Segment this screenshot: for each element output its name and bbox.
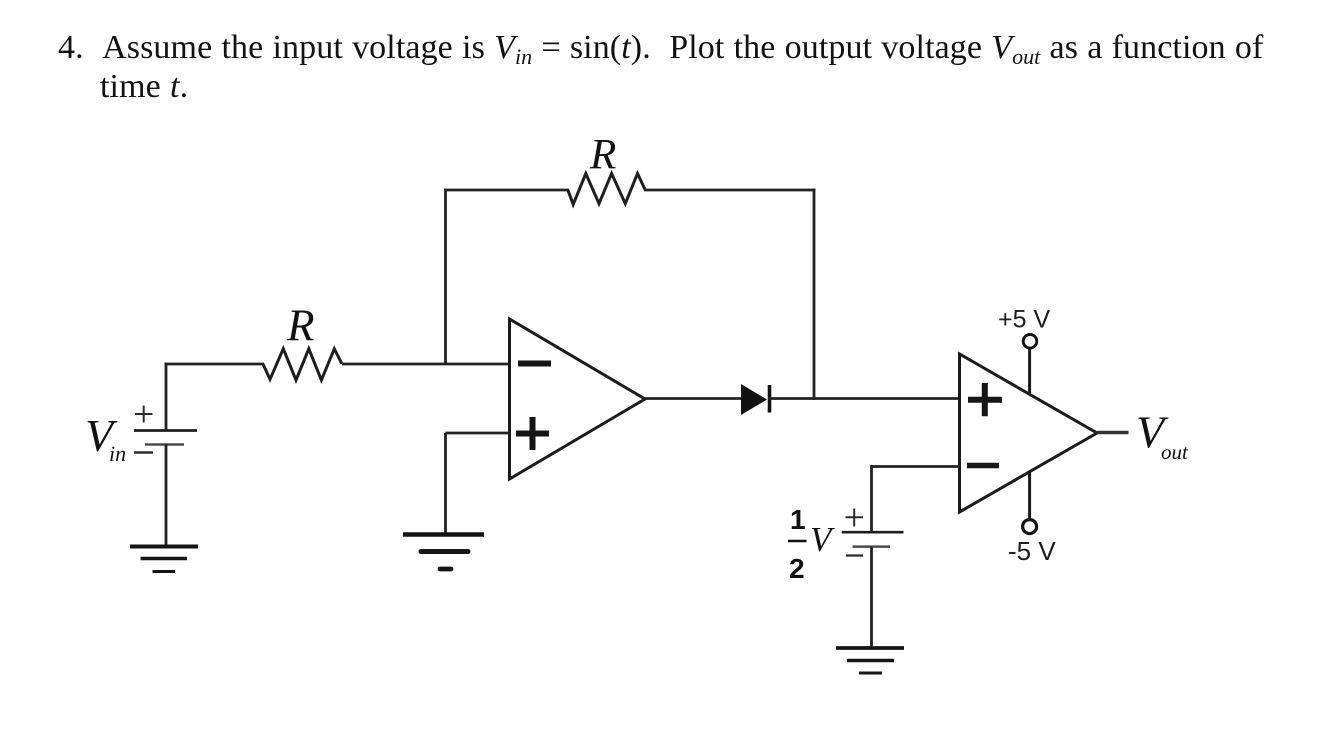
wire: U2 inverting input vertical down to battery — [870, 465, 873, 532]
ground G3 (below 1/2 V battery) — [836, 648, 904, 673]
-5 V supply terminal circle — [1023, 520, 1037, 534]
ground G2 (op-amp U1 non-inverting) — [403, 535, 484, 570]
svg-text:in: in — [109, 441, 126, 466]
label +5 V — [998, 306, 1050, 334]
op-amp U1 triangle — [510, 319, 646, 479]
wire: feedback top horizontal left of R2 — [444, 189, 569, 192]
wire: Vin battery positive terminal vertical — [165, 363, 168, 431]
+5 V supply terminal circle — [1023, 335, 1037, 349]
battery B1 bottom plate — [145, 443, 184, 445]
label B2 value 1/2 V — [788, 504, 835, 584]
wire: battery B1 to ground — [165, 445, 168, 549]
label -5 V — [1008, 536, 1056, 566]
wire: feedback right vertical down to output node — [813, 189, 816, 400]
op-amp U1 non-inverting input plus sign — [516, 417, 549, 450]
svg-text:1: 1 — [790, 504, 806, 535]
label R1 value R — [286, 301, 315, 351]
battery B2 (1/2 V) top plate — [842, 531, 904, 534]
op-amp U2 inverting input minus sign — [967, 463, 999, 469]
wire: U1 output to diode — [644, 397, 742, 400]
wire: diode to op-amp U2 non-inverting input (junction with feedback) — [768, 397, 960, 400]
svg-text:R: R — [589, 132, 616, 179]
wire: battery B2 to ground — [870, 547, 873, 649]
wire: U1 non-inverting input vertical to ground — [444, 433, 447, 535]
diode D1 cathode bar — [768, 385, 772, 413]
resistor R2 zigzag — [568, 174, 645, 205]
wire: input node horizontal to R1 — [165, 363, 264, 366]
battery B1 (Vin) top plate — [134, 429, 197, 432]
problem statement line 1 — [58, 28, 1263, 77]
op-amp U2 non-inverting input plus sign — [968, 383, 1002, 416]
svg-text:2: 2 — [789, 553, 805, 584]
svg-text:+5 V: +5 V — [998, 306, 1050, 334]
label Vin — [85, 410, 126, 466]
svg-text:out: out — [1161, 440, 1189, 464]
svg-text:R: R — [286, 301, 315, 351]
problem statement line 2 — [100, 67, 188, 107]
-5 V supply line — [1028, 473, 1031, 520]
resistor R1 zigzag — [263, 349, 342, 380]
wire: R1 to op-amp U1 inverting input — [342, 363, 510, 366]
label Vout — [1136, 407, 1189, 465]
ground G1 (below Vin battery) — [130, 547, 198, 572]
wire: U1 non-inverting input horizontal — [446, 432, 511, 435]
battery B1 minus polarity mark — [134, 451, 153, 453]
wire: feedback left vertical (node to top loop) — [444, 189, 447, 365]
wire: feedback top horizontal right of R2 — [644, 189, 815, 192]
battery B1 plus polarity mark — [135, 406, 153, 423]
op-amp U1 inverting input minus sign — [518, 361, 551, 367]
label R2 value R — [589, 132, 616, 179]
wire: U2 output — [1097, 431, 1129, 434]
svg-text:-5 V: -5 V — [1008, 536, 1056, 566]
battery B2 bottom plate — [853, 545, 891, 548]
+5 V supply line — [1028, 349, 1031, 394]
op-amp U2 triangle — [960, 354, 1098, 512]
diode D1 (anode triangle) — [741, 384, 767, 415]
svg-text:V: V — [810, 520, 835, 559]
battery B2 plus polarity mark — [846, 509, 864, 527]
wire: U2 inverting input horizontal — [872, 465, 961, 468]
battery B2 minus polarity mark — [846, 554, 863, 556]
